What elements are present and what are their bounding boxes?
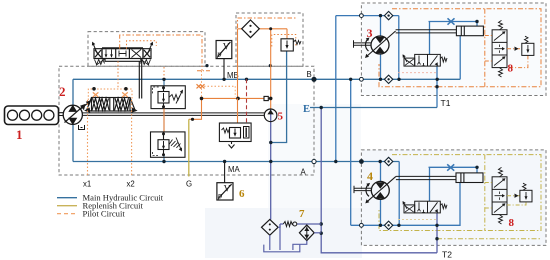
node B-line junctions (162, 78, 165, 81)
orange box top (238, 18, 298, 28)
bottom rail (105, 59, 141, 62)
pump variable arrow (65, 105, 85, 122)
cylinder 3 (396, 26, 484, 36)
motor4 olive line to T2 (437, 238, 541, 240)
wire motor3 collector end to cylinder (459, 36, 461, 80)
short jog at y=70.7 (197, 70, 211, 72)
node grey box dots (205, 64, 208, 67)
wire T1 line (436, 66, 438, 107)
left spring (95, 60, 105, 65)
spring right (169, 95, 180, 101)
inner dotted branch (127, 41, 157, 49)
servo pilot dotted box (88, 89, 132, 100)
wire B main line y=79.3 (73, 78, 460, 80)
cell diagonals (494, 32, 505, 66)
wire drain trunk x=321 (321, 108, 437, 253)
aux relief top (522, 36, 534, 55)
pump enclosure box (59, 66, 314, 175)
svg-text:6: 6 (239, 188, 245, 200)
svg-text:7: 7 (299, 208, 305, 220)
shaft to charge pump (82, 113, 264, 116)
motor4 replenish dash frame (379, 155, 541, 231)
right orifice element (244, 127, 250, 139)
filter diamond (242, 20, 260, 38)
svg-text:MA: MA (228, 165, 240, 174)
orange header line (202, 97, 265, 99)
bypass drop to tank (279, 224, 281, 250)
node port B (312, 77, 316, 81)
node collector4 junctions (379, 224, 382, 227)
pilot box (404, 58, 415, 66)
motor 3 enclosure box (361, 3, 546, 96)
node top line junction (379, 14, 382, 17)
prop arrow (176, 91, 183, 104)
check valve diamond B line (384, 75, 392, 83)
bypass spring (283, 222, 292, 227)
suction filter diamond (262, 219, 279, 235)
pump case drain mark (79, 125, 85, 130)
engine block (5, 106, 59, 125)
right cell X (132, 50, 142, 58)
red pilot dashed (246, 79, 248, 123)
dashed pilot (153, 87, 159, 93)
node E junction (320, 106, 323, 109)
bottom tank mark (229, 142, 235, 149)
plug X marks (93, 92, 128, 97)
wire motor4 collector (351, 183, 460, 226)
middle cell H (119, 51, 126, 57)
left solenoid (94, 49, 102, 59)
left cell arrows (106, 50, 112, 58)
servo end arrows (87, 98, 136, 112)
orifice X mark blue (448, 18, 455, 24)
pump triangles (69, 106, 76, 124)
svg-text:4: 4 (367, 169, 373, 183)
servo springs (92, 98, 109, 110)
node motor4 port circles (360, 160, 364, 164)
svg-text:x1: x1 (83, 180, 91, 189)
svg-text:V: V (223, 43, 230, 53)
wire valve3 feed loop (429, 22, 478, 55)
servo body (92, 98, 131, 112)
svg-text:x2: x2 (127, 180, 135, 189)
node port A (312, 159, 316, 163)
wire A main line y=161.5 (73, 161, 399, 163)
pilot supply frame (120, 35, 202, 71)
node T dots (435, 85, 438, 88)
node A-line junctions (162, 160, 165, 163)
x1 pilot line (87, 100, 89, 177)
top spring (499, 20, 503, 29)
wire motor4 ports vertical (380, 162, 382, 226)
valve body (102, 49, 143, 59)
wire valve4 feed loop (429, 167, 478, 201)
motor3 shaft (354, 40, 372, 47)
svg-text:8: 8 (509, 217, 515, 229)
svg-text:2: 2 (59, 84, 66, 99)
wire pump left vertical (72, 79, 74, 161)
check to trunk (314, 232, 321, 234)
svg-text:8: 8 (508, 63, 514, 75)
background tint washes (362, 4, 546, 95)
svg-text:G: G (186, 180, 192, 189)
right solenoid (143, 49, 151, 59)
wire T2 line (436, 213, 438, 253)
bypass line (278, 224, 321, 227)
motor3 pilot dash-dot frame (379, 9, 541, 87)
motor3 circle (371, 36, 389, 54)
wire pilot relief drain (271, 51, 287, 143)
charge filter enclosure box (236, 13, 303, 66)
svg-text:p: p (217, 191, 223, 201)
svg-text:MB: MB (227, 71, 239, 80)
pump circle (63, 105, 82, 124)
svg-text:E: E (303, 104, 310, 115)
motor3 rotation arc (365, 39, 368, 52)
wire charge pump suction (270, 110, 272, 220)
XX plug marks (197, 84, 205, 88)
pilot valve to servo link (139, 61, 141, 98)
node suction junction (269, 141, 272, 144)
tank symbol (264, 245, 300, 252)
valve P port pilot (117, 61, 119, 89)
wire motor3 ports vertical (380, 16, 382, 80)
svg-text:3: 3 (367, 26, 373, 40)
wire A to top line riser (335, 16, 337, 162)
check diamond (299, 225, 314, 241)
svg-text:B: B (307, 70, 312, 79)
svg-text:p: p (216, 49, 222, 59)
pink pilot dash (398, 72, 437, 74)
wire E line (310, 107, 437, 109)
check drain to tank (293, 241, 307, 250)
node motor3 port circles (360, 14, 364, 18)
orifice X mark blue 4 (447, 164, 454, 170)
svg-text:Pilot Circuit: Pilot Circuit (83, 209, 126, 219)
motor 4 enclosure box (361, 150, 546, 246)
8-block orange wiring (485, 36, 528, 68)
orange feeds (237, 98, 239, 123)
svg-text:V: V (224, 185, 231, 195)
cylinder 4 (396, 173, 483, 183)
flushing valve 4 (403, 201, 447, 213)
filter feed lines (237, 29, 239, 99)
motor3 swash arrow (367, 31, 396, 57)
svg-text:5: 5 (278, 111, 284, 123)
pump-servo link arrow (80, 102, 90, 110)
G replenish line (188, 119, 190, 176)
bottom spring (499, 68, 503, 77)
wire motor3 top line (336, 16, 399, 79)
port circles on pump box edge (312, 14, 363, 228)
node cylinder feed dots (475, 20, 478, 23)
engine-pump shaft (59, 113, 64, 116)
check valve diamond top line (384, 11, 392, 19)
right spring (141, 60, 151, 65)
spring right (440, 57, 447, 62)
svg-text:1: 1 (16, 127, 23, 142)
svg-text:A: A (301, 167, 307, 176)
motor3 orange drop line (484, 9, 486, 87)
wire valve block line upper (163, 79, 165, 161)
wire B to motor4 collector riser (350, 79, 352, 225)
servo pilot dots (92, 87, 96, 91)
check valve diamond A line (384, 157, 392, 165)
node drain trunk junctions (320, 222, 323, 225)
motor4 olive drop line (484, 155, 486, 231)
block1 pilot stub (163, 67, 165, 78)
check valve diamond collector4 (384, 221, 392, 229)
valve block orange interlink (163, 109, 165, 132)
bypass ball circle (293, 222, 297, 226)
G feed jog orange (189, 98, 202, 119)
pilot valve enclosure box (88, 32, 205, 67)
spring left (222, 128, 230, 133)
svg-text:T1: T1 (441, 98, 451, 108)
wire motor4 A turn-down (398, 162, 400, 226)
svg-text:T2: T2 (442, 250, 452, 260)
orifice square (264, 96, 268, 100)
pilot relief dotted frame (272, 35, 296, 47)
pilot relief valve (281, 39, 301, 51)
filter down to tank (269, 235, 271, 250)
flushing valve 3 (403, 54, 447, 66)
x2 pilot line (131, 100, 133, 177)
